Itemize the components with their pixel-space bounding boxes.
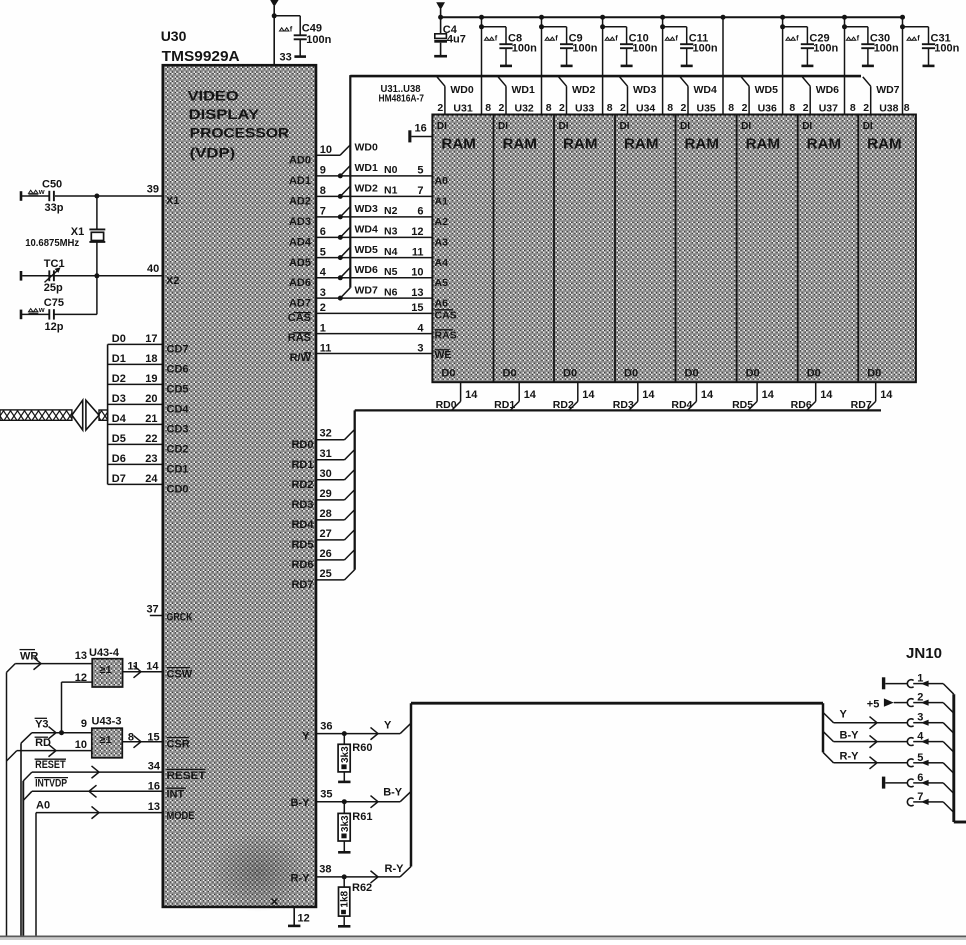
wire AD1 (VDP pin 9) / net WD1 / RAM A0 pin 5 bbox=[289, 162, 448, 187]
resistor R62 1k8 bbox=[338, 877, 372, 926]
svg-text:5: 5 bbox=[417, 165, 423, 177]
svg-text:D0: D0 bbox=[685, 368, 699, 380]
svg-text:WD4: WD4 bbox=[355, 224, 378, 236]
svg-text:12: 12 bbox=[75, 672, 87, 684]
wire +5 drop to U37 pin 8 bbox=[842, 15, 868, 115]
svg-text:D0: D0 bbox=[624, 368, 638, 380]
svg-text:2: 2 bbox=[742, 102, 748, 114]
svg-text:U30: U30 bbox=[161, 28, 187, 44]
svg-text:13: 13 bbox=[75, 650, 87, 662]
svg-text:AD7: AD7 bbox=[289, 297, 311, 309]
svg-text:RD5: RD5 bbox=[732, 399, 753, 411]
svg-text:RD1: RD1 bbox=[494, 399, 515, 411]
svg-text:100n: 100n bbox=[572, 42, 597, 54]
svg-text:37: 37 bbox=[146, 604, 158, 616]
svg-text:RD2: RD2 bbox=[553, 399, 574, 411]
svg-text:C75: C75 bbox=[44, 297, 64, 309]
svg-text:DI: DI bbox=[680, 121, 690, 132]
connector JN10 pin 6 bbox=[882, 772, 954, 794]
svg-text:Y: Y bbox=[384, 720, 392, 732]
bus cable side of JN10 (thick) bbox=[954, 694, 966, 822]
svg-text:R/W: R/W bbox=[290, 352, 312, 364]
svg-text:Y3: Y3 bbox=[35, 719, 48, 731]
connector JN10 pin 5 bbox=[907, 752, 953, 774]
svg-text:RAS: RAS bbox=[288, 332, 311, 344]
svg-text:R62: R62 bbox=[352, 882, 372, 894]
wire RD7 from U38 D0 pin 14 bbox=[851, 382, 894, 411]
svg-text:RD7: RD7 bbox=[851, 399, 872, 411]
svg-text:14: 14 bbox=[146, 660, 159, 672]
wire GRCK stub (VDP pin 37) bbox=[146, 604, 192, 624]
wire RD2 from U33 D0 pin 14 bbox=[553, 382, 596, 411]
or-gate U43-3 bbox=[92, 716, 123, 758]
svg-text:CAS: CAS bbox=[435, 309, 457, 321]
svg-text:N1: N1 bbox=[384, 185, 398, 197]
bus Y/B-Y/R-Y to connector (thick) bbox=[411, 703, 823, 866]
svg-text:2: 2 bbox=[437, 102, 443, 114]
wire AD4 (VDP pin 6) / net WD4 / RAM A3 pin 12 bbox=[289, 224, 448, 249]
svg-text:N5: N5 bbox=[384, 266, 398, 278]
connector JN10 pin 7 bbox=[907, 791, 953, 813]
wire +5 drop to U36 pin 8 bbox=[780, 15, 807, 115]
svg-text:3k3: 3k3 bbox=[340, 815, 351, 832]
svg-text:A3: A3 bbox=[435, 237, 449, 249]
svg-text:3: 3 bbox=[417, 342, 423, 354]
svg-text:RAM: RAM bbox=[441, 136, 476, 153]
svg-text:A5: A5 bbox=[435, 277, 449, 289]
wire B-Y to JN10 pin 4 bbox=[823, 730, 907, 748]
svg-text:INT: INT bbox=[167, 789, 185, 801]
svg-text:R-Y: R-Y bbox=[840, 751, 860, 763]
svg-text:16: 16 bbox=[148, 780, 160, 792]
svg-text:N3: N3 bbox=[384, 226, 398, 238]
svg-text:TC1: TC1 bbox=[44, 258, 65, 270]
svg-text:R61: R61 bbox=[352, 811, 372, 823]
wire VDP pin 33 to +5 (node with C49) bbox=[272, 13, 301, 65]
svg-text:4: 4 bbox=[917, 731, 924, 743]
svg-text:8: 8 bbox=[789, 102, 795, 114]
svg-text:PROCESSOR: PROCESSOR bbox=[190, 125, 290, 141]
svg-text:24: 24 bbox=[145, 473, 158, 485]
svg-text:DI: DI bbox=[498, 121, 508, 132]
wire RD0 to VDP pin 32 bbox=[291, 428, 354, 451]
ground VDP pin 12 bbox=[272, 899, 310, 926]
svg-text:12: 12 bbox=[411, 226, 423, 238]
svg-text:RAM: RAM bbox=[503, 136, 538, 153]
net RD (from bottom edge) to U43-3 pin 10 bbox=[7, 737, 92, 761]
wire RAS (VDP pin 1 to RAM pin 4) bbox=[288, 322, 457, 344]
svg-text:D4: D4 bbox=[112, 413, 127, 425]
svg-text:RD6: RD6 bbox=[791, 399, 812, 411]
label U31..U38 HM4816A-7 bbox=[379, 84, 425, 104]
svg-text:2: 2 bbox=[681, 102, 687, 114]
bottom page edge bar bbox=[0, 936, 966, 940]
svg-text:A6: A6 bbox=[435, 297, 449, 309]
pin 8 label U31 bbox=[485, 102, 491, 114]
svg-text:11: 11 bbox=[127, 660, 139, 672]
svg-text:14: 14 bbox=[465, 389, 478, 401]
svg-text:8: 8 bbox=[128, 731, 134, 743]
svg-text:RD5: RD5 bbox=[291, 539, 313, 551]
svg-text:15: 15 bbox=[147, 731, 159, 743]
svg-text:39: 39 bbox=[147, 183, 159, 195]
net INTVDP from VDP INT pin 16 bbox=[23, 778, 186, 801]
svg-text:13: 13 bbox=[411, 287, 423, 299]
svg-text:1: 1 bbox=[917, 673, 923, 685]
wire RD4 from U35 D0 pin 14 bbox=[671, 382, 714, 411]
svg-text:30: 30 bbox=[320, 468, 332, 480]
svg-text:CAS: CAS bbox=[288, 312, 311, 324]
capacitor C49 100n bbox=[280, 16, 332, 57]
wire B-Y output (VDP pin 35) bbox=[291, 787, 411, 809]
svg-text:33p: 33p bbox=[45, 202, 64, 214]
resistor R60 3k3 bbox=[338, 734, 372, 782]
svg-text:D3: D3 bbox=[112, 393, 126, 405]
svg-text:3: 3 bbox=[320, 287, 326, 299]
svg-text:CD7: CD7 bbox=[167, 344, 189, 356]
svg-text:WD5: WD5 bbox=[355, 244, 378, 256]
svg-text:2: 2 bbox=[620, 102, 626, 114]
svg-text:AD6: AD6 bbox=[289, 277, 311, 289]
svg-text:7: 7 bbox=[917, 791, 923, 803]
svg-text:WD2: WD2 bbox=[572, 84, 595, 96]
svg-text:AD1: AD1 bbox=[289, 175, 311, 187]
svg-text:RAM: RAM bbox=[563, 136, 598, 153]
svg-text:B-Y: B-Y bbox=[383, 787, 403, 799]
wire Y to JN10 pin 3 bbox=[823, 709, 907, 729]
wire AD3 (VDP pin 7) / net WD3 / RAM A2 pin 6 bbox=[289, 203, 448, 228]
capacitor C9 100n bbox=[545, 27, 598, 66]
svg-text:WD5: WD5 bbox=[755, 84, 778, 96]
svg-text:DI: DI bbox=[559, 121, 569, 132]
svg-text:CSR: CSR bbox=[167, 738, 190, 750]
wire +5 drop to U32 pin 8 bbox=[539, 15, 567, 115]
capacitor C4 4u7 (polarized) bbox=[434, 17, 466, 56]
svg-text:100n: 100n bbox=[632, 42, 657, 54]
svg-text:RD6: RD6 bbox=[291, 559, 313, 571]
svg-text:GRCK: GRCK bbox=[167, 612, 193, 624]
svg-text:CD3: CD3 bbox=[167, 424, 189, 436]
svg-text:WD2: WD2 bbox=[355, 183, 378, 195]
svg-text:100n: 100n bbox=[306, 34, 331, 46]
wire RD0 from U31 D0 pin 14 bbox=[436, 382, 479, 411]
svg-text:14: 14 bbox=[582, 389, 595, 401]
svg-text:D2: D2 bbox=[112, 373, 126, 385]
svg-text:CSW: CSW bbox=[167, 669, 193, 681]
svg-text:A1: A1 bbox=[435, 196, 449, 208]
svg-text:100n: 100n bbox=[693, 42, 718, 54]
svg-text:A4: A4 bbox=[435, 257, 449, 269]
svg-text:5: 5 bbox=[320, 246, 326, 258]
svg-text:6: 6 bbox=[320, 226, 326, 238]
wire Y output (VDP pin 36) bbox=[302, 720, 411, 743]
capacitor C50 33p bbox=[21, 179, 64, 215]
svg-text:A2: A2 bbox=[435, 216, 449, 228]
svg-text:U38: U38 bbox=[879, 102, 898, 114]
wire X2 (VDP pin 40) bbox=[22, 263, 179, 287]
svg-text:RD4: RD4 bbox=[291, 519, 314, 531]
svg-text:15: 15 bbox=[411, 302, 423, 314]
svg-text:CD0: CD0 bbox=[167, 484, 189, 496]
svg-text:22: 22 bbox=[145, 433, 157, 445]
svg-text:31: 31 bbox=[320, 448, 332, 460]
svg-text:B-Y: B-Y bbox=[840, 730, 860, 742]
svg-text:Y: Y bbox=[840, 709, 848, 721]
wire X1 (VDP pin 39) bbox=[55, 183, 179, 207]
svg-text:RAM: RAM bbox=[746, 136, 781, 153]
svg-text:WD6: WD6 bbox=[816, 84, 839, 96]
bus WD0-WD7 (thick) above RAMs bbox=[350, 75, 861, 288]
svg-text:WR: WR bbox=[20, 651, 38, 663]
svg-text:R60: R60 bbox=[352, 742, 372, 754]
svg-text:11: 11 bbox=[320, 342, 332, 354]
wire WD5 tap to U36 pin 2 (DI) bbox=[741, 77, 778, 115]
svg-text:AD4: AD4 bbox=[289, 237, 312, 249]
svg-text:RD3: RD3 bbox=[291, 499, 313, 511]
capacitor C10 100n bbox=[605, 27, 658, 66]
svg-text:JN10: JN10 bbox=[906, 646, 942, 662]
net Y3 (from bottom edge) bbox=[21, 718, 92, 936]
svg-text:100n: 100n bbox=[512, 42, 537, 54]
svg-text:D7: D7 bbox=[112, 473, 126, 485]
svg-text:B-Y: B-Y bbox=[291, 797, 311, 809]
svg-text:34: 34 bbox=[148, 761, 161, 773]
svg-text:3k3: 3k3 bbox=[340, 746, 351, 763]
svg-text:D0: D0 bbox=[112, 333, 126, 345]
svg-text:17: 17 bbox=[145, 333, 157, 345]
svg-text:DI: DI bbox=[741, 121, 751, 132]
svg-text:RAS: RAS bbox=[435, 329, 457, 341]
connector JN10 pin 4 bbox=[907, 731, 953, 753]
wire U43-4 out pin 11 to VDP CSW pin 14 bbox=[123, 660, 193, 680]
connector JN10 label bbox=[906, 646, 942, 662]
wire +5 drop to U35 pin 8 bbox=[721, 15, 726, 115]
resistor R61 3k3 bbox=[338, 802, 372, 853]
svg-text:8: 8 bbox=[850, 102, 856, 114]
capacitor C11 100n bbox=[665, 27, 718, 66]
svg-text:WD3: WD3 bbox=[633, 84, 656, 96]
svg-text:DI: DI bbox=[437, 121, 447, 132]
net RESET to VDP pin 34 bbox=[23, 759, 205, 936]
svg-text:RD7: RD7 bbox=[291, 579, 313, 591]
svg-text:8: 8 bbox=[667, 102, 673, 114]
svg-text:A0: A0 bbox=[435, 175, 449, 187]
svg-text:8: 8 bbox=[546, 102, 552, 114]
svg-text:U36: U36 bbox=[758, 102, 777, 114]
svg-text:D0: D0 bbox=[563, 368, 577, 380]
svg-text:26: 26 bbox=[320, 548, 332, 560]
svg-text:4u7: 4u7 bbox=[447, 33, 466, 45]
capacitor C75 12p bbox=[21, 276, 97, 333]
svg-text:WD7: WD7 bbox=[876, 84, 899, 96]
svg-text:14: 14 bbox=[762, 389, 775, 401]
svg-text:X2: X2 bbox=[166, 275, 179, 287]
svg-text:36: 36 bbox=[320, 720, 332, 732]
svg-text:DI: DI bbox=[802, 121, 812, 132]
wire AD6 (VDP pin 4) / net WD6 / RAM A5 pin 10 bbox=[289, 264, 448, 289]
svg-text:INTVDP: INTVDP bbox=[35, 778, 67, 790]
svg-text:4: 4 bbox=[320, 267, 327, 279]
svg-text:AD0: AD0 bbox=[289, 155, 311, 167]
svg-text:RESET: RESET bbox=[167, 770, 206, 782]
svg-text:U33: U33 bbox=[575, 102, 594, 114]
svg-text:D1: D1 bbox=[112, 353, 126, 365]
svg-text:8: 8 bbox=[728, 102, 734, 114]
svg-text:D0: D0 bbox=[746, 368, 760, 380]
svg-text:C50: C50 bbox=[42, 179, 62, 191]
svg-text:CD4: CD4 bbox=[167, 404, 190, 416]
+5V arrow above C49 bbox=[270, 0, 278, 16]
wire +5 drop to U33 pin 8 bbox=[600, 15, 627, 115]
svg-text:RD3: RD3 bbox=[613, 399, 634, 411]
svg-text:100n: 100n bbox=[813, 42, 838, 54]
wire WD2 tap to U33 pin 2 (DI) bbox=[559, 77, 596, 115]
net WR (from bottom edge) bbox=[7, 650, 93, 937]
svg-text:19: 19 bbox=[145, 373, 157, 385]
svg-text:12p: 12p bbox=[45, 321, 64, 333]
svg-text:2: 2 bbox=[917, 692, 923, 704]
svg-text:CD1: CD1 bbox=[167, 464, 189, 476]
svg-text:RD: RD bbox=[35, 737, 51, 749]
svg-text:RD2: RD2 bbox=[291, 479, 313, 491]
connector JN10 pin 3 bbox=[907, 712, 953, 734]
svg-text:N4: N4 bbox=[384, 246, 398, 258]
svg-text:VIDEO: VIDEO bbox=[188, 87, 239, 103]
svg-text:WD6: WD6 bbox=[355, 264, 378, 276]
svg-text:N2: N2 bbox=[384, 205, 398, 217]
wire RD1 from U32 D0 pin 14 bbox=[494, 382, 537, 411]
capacitor C8 100n bbox=[485, 27, 538, 66]
svg-text:≥1: ≥1 bbox=[100, 734, 113, 746]
+5V arrow above C4 bbox=[436, 2, 445, 20]
wire CAS (VDP pin 2 to RAM pin 15) bbox=[288, 302, 457, 324]
svg-text:21: 21 bbox=[145, 413, 157, 425]
svg-text:10.6875MHz: 10.6875MHz bbox=[25, 238, 79, 249]
wire R-Y to JN10 pin 5 bbox=[823, 751, 907, 769]
svg-text:AD2: AD2 bbox=[289, 196, 311, 208]
bus entry box D0-D7 bbox=[108, 333, 190, 496]
svg-text:25: 25 bbox=[320, 568, 332, 580]
wire RD2 to VDP pin 30 bbox=[291, 468, 354, 491]
svg-text:R-Y: R-Y bbox=[291, 873, 311, 885]
svg-text:RAM: RAM bbox=[624, 136, 659, 153]
wire WD0 tap to U31 pin 2 (DI) bbox=[437, 77, 474, 115]
svg-text:TMS9929A: TMS9929A bbox=[162, 49, 241, 65]
svg-text:33: 33 bbox=[280, 52, 292, 64]
wire R-Y output (VDP pin 38) bbox=[291, 863, 411, 885]
svg-text:DISPLAY: DISPLAY bbox=[189, 106, 260, 122]
svg-text:WD0: WD0 bbox=[355, 142, 378, 154]
svg-text:MODE: MODE bbox=[167, 810, 195, 822]
svg-text:A0: A0 bbox=[36, 800, 50, 812]
svg-text:CD2: CD2 bbox=[167, 444, 189, 456]
wire RD1 to VDP pin 31 bbox=[291, 448, 354, 471]
wire WD1 tap to U32 pin 2 (DI) bbox=[498, 77, 535, 115]
wire WD3 tap to U34 pin 2 (DI) bbox=[620, 77, 657, 115]
svg-text:RD4: RD4 bbox=[671, 399, 692, 411]
svg-text:3: 3 bbox=[917, 712, 923, 724]
svg-text:X1: X1 bbox=[71, 226, 84, 238]
bus arrow (data bus from CPU) bbox=[0, 400, 108, 430]
svg-text:12: 12 bbox=[298, 912, 310, 924]
svg-text:DI: DI bbox=[863, 121, 873, 132]
svg-text:14: 14 bbox=[524, 389, 537, 401]
svg-text:1: 1 bbox=[320, 322, 326, 334]
wire WD7 tap to U38 pin 2 (DI) bbox=[863, 77, 900, 115]
svg-text:7: 7 bbox=[417, 185, 423, 197]
svg-text:38: 38 bbox=[319, 864, 331, 876]
svg-text:11: 11 bbox=[412, 246, 424, 258]
pin 8 label U34 bbox=[667, 102, 673, 114]
svg-text:14: 14 bbox=[642, 389, 655, 401]
wire WD6 tap to U37 pin 2 (DI) bbox=[802, 77, 839, 115]
svg-text:14: 14 bbox=[701, 389, 714, 401]
svg-text:RD1: RD1 bbox=[291, 459, 313, 471]
svg-text:U43-4: U43-4 bbox=[89, 647, 120, 659]
pin 8 label U32 bbox=[546, 102, 552, 114]
svg-text:20: 20 bbox=[145, 393, 157, 405]
+5V rail (top) bbox=[441, 16, 904, 18]
svg-text:WD1: WD1 bbox=[355, 162, 378, 174]
IC RAM bank U31-U38 bodies (HM4816A-7) bbox=[432, 115, 916, 383]
svg-text:7: 7 bbox=[320, 206, 326, 218]
wire U43-3 out pin 8 to VDP CSR pin 15 bbox=[122, 731, 189, 750]
svg-text:WD3: WD3 bbox=[355, 203, 378, 215]
wire AD7 (VDP pin 3) / net WD7 / RAM A6 pin 13 bbox=[289, 284, 448, 309]
svg-text:WD1: WD1 bbox=[512, 84, 535, 96]
svg-text:D6: D6 bbox=[112, 453, 126, 465]
svg-text:≥1: ≥1 bbox=[100, 664, 113, 676]
svg-text:8: 8 bbox=[485, 102, 491, 114]
wire RD5 to VDP pin 27 bbox=[291, 528, 354, 551]
svg-text:2: 2 bbox=[559, 102, 565, 114]
svg-text:Y: Y bbox=[302, 731, 310, 743]
svg-text:U43-3: U43-3 bbox=[92, 716, 122, 728]
svg-text:14: 14 bbox=[820, 389, 833, 401]
svg-text:8: 8 bbox=[904, 102, 910, 114]
wire U43-4 pin 12 from Y3 node bbox=[62, 672, 93, 733]
svg-text:CD6: CD6 bbox=[167, 364, 189, 376]
svg-text:40: 40 bbox=[147, 263, 159, 275]
svg-text:5: 5 bbox=[917, 752, 923, 764]
svg-text:AD5: AD5 bbox=[289, 257, 311, 269]
svg-text:X1: X1 bbox=[166, 195, 179, 207]
wire AD5 (VDP pin 5) / net WD5 / RAM A4 pin 11 bbox=[289, 244, 448, 269]
pin 8 label U36 bbox=[789, 102, 795, 114]
svg-text:10: 10 bbox=[320, 144, 332, 156]
svg-text:6: 6 bbox=[417, 206, 423, 218]
svg-text:23: 23 bbox=[145, 453, 157, 465]
svg-text:(VDP): (VDP) bbox=[190, 144, 236, 160]
svg-text:CD5: CD5 bbox=[167, 384, 189, 396]
wire WD4 tap to U35 pin 2 (DI) bbox=[680, 77, 717, 115]
wire RD5 from U36 D0 pin 14 bbox=[732, 382, 775, 411]
pin 8 label U38 bbox=[904, 102, 910, 114]
pin 8 label U35 bbox=[728, 102, 734, 114]
svg-text:D0: D0 bbox=[441, 368, 455, 380]
svg-text:29: 29 bbox=[320, 488, 332, 500]
svg-text:1k8: 1k8 bbox=[340, 890, 351, 907]
or-gate U43-4 bbox=[89, 647, 123, 687]
svg-text:WD4: WD4 bbox=[694, 84, 717, 96]
pin 8 label U37 bbox=[850, 102, 856, 114]
svg-text:2: 2 bbox=[863, 102, 869, 114]
svg-text:10: 10 bbox=[75, 739, 87, 751]
wire RD3 from U34 D0 pin 14 bbox=[613, 382, 656, 411]
svg-text:N0: N0 bbox=[384, 164, 398, 176]
crystal X1 10.6875MHz bbox=[25, 196, 105, 276]
svg-text:RD0: RD0 bbox=[291, 439, 313, 451]
